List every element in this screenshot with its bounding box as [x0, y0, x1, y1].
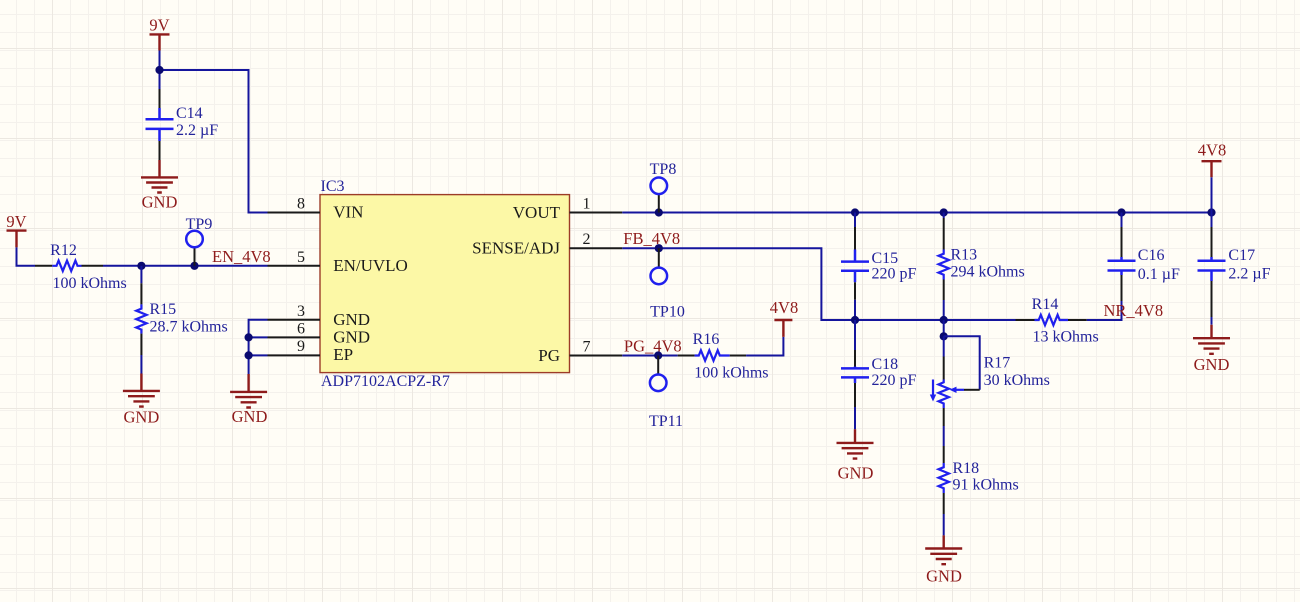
- wire VOUT bus: [622, 212, 1211, 214]
- node junction pin9: [245, 351, 253, 359]
- svg-text:C17: C17: [1228, 247, 1255, 264]
- svg-text:100 kOhms: 100 kOhms: [53, 275, 127, 292]
- node junction pin6: [245, 333, 253, 341]
- resistor R15: [136, 266, 228, 374]
- svg-text:GND: GND: [926, 566, 962, 585]
- node junction C17 top: [1207, 208, 1215, 216]
- wire 4V8 to bus: [1211, 177, 1213, 212]
- svg-text:GND: GND: [333, 310, 370, 329]
- power 9V left: [6, 212, 26, 247]
- ground GND (pins 3 6 9): [230, 374, 267, 426]
- svg-text:GND: GND: [333, 327, 370, 346]
- wire R17 to R18: [943, 408, 945, 446]
- ground GND (C18): [837, 429, 874, 482]
- svg-text:R15: R15: [150, 301, 177, 318]
- svg-text:PG: PG: [538, 346, 560, 365]
- test point TP11: [649, 356, 683, 430]
- svg-text:C15: C15: [872, 250, 899, 267]
- wire 9V to R12: [17, 247, 36, 265]
- svg-text:TP8: TP8: [650, 161, 677, 178]
- node junction TP11: [654, 351, 662, 359]
- svg-text:PG_4V8: PG_4V8: [624, 336, 682, 355]
- svg-text:R18: R18: [953, 460, 980, 477]
- svg-text:3: 3: [297, 303, 305, 320]
- node junction C16 top: [1117, 208, 1125, 216]
- resistor R12: [35, 242, 127, 292]
- test point TP9: [186, 216, 213, 266]
- pin 2 SENSE/ADJ: [472, 231, 622, 258]
- pin 7 PG: [538, 339, 622, 366]
- resistor R13: [939, 213, 1025, 321]
- wire R12 to EN node: [103, 265, 268, 267]
- svg-text:294 kOhms: 294 kOhms: [951, 264, 1025, 281]
- node junction TP8: [655, 208, 663, 216]
- svg-text:220 pF: 220 pF: [872, 372, 917, 389]
- svg-text:EP: EP: [333, 345, 353, 364]
- ground GND (R18): [925, 535, 962, 585]
- node junction R17 wiper: [940, 332, 948, 340]
- svg-text:28.7 kOhms: 28.7 kOhms: [150, 318, 228, 335]
- svg-text:R13: R13: [951, 247, 978, 264]
- pin 3 GND: [268, 303, 371, 329]
- svg-text:4V8: 4V8: [770, 298, 798, 317]
- node junction 9V/C14: [155, 66, 163, 74]
- node junction TP10: [655, 244, 663, 252]
- power 4V8 top right: [1198, 140, 1226, 177]
- power 9V top: [149, 16, 169, 51]
- pin 5 EN/UVLO: [268, 249, 408, 275]
- wire R16 to 4V8: [746, 337, 783, 356]
- node junction R13 top: [940, 208, 948, 216]
- wire 9V to C14/VIN node: [160, 51, 268, 213]
- pin 8 VIN: [268, 196, 364, 222]
- svg-text:GND: GND: [142, 192, 178, 211]
- pin 1 VOUT: [513, 196, 623, 223]
- capacitor C16: [1108, 213, 1181, 302]
- resistor R16: [678, 331, 769, 382]
- svg-text:5: 5: [297, 249, 305, 266]
- node junction R12/R15: [137, 262, 145, 270]
- svg-text:R12: R12: [50, 242, 77, 259]
- svg-text:2.2 µF: 2.2 µF: [176, 122, 218, 139]
- potentiometer R17: [930, 336, 1050, 408]
- node junction C15 bottom: [851, 316, 859, 324]
- svg-text:VOUT: VOUT: [513, 203, 561, 222]
- node junction R13 bottom: [940, 316, 948, 324]
- ground GND (R15): [123, 374, 160, 427]
- svg-text:30 kOhms: 30 kOhms: [984, 372, 1050, 389]
- svg-text:100 kOhms: 100 kOhms: [694, 365, 768, 382]
- svg-text:13 kOhms: 13 kOhms: [1033, 329, 1099, 346]
- wire PG net: [622, 355, 677, 357]
- pin 9 EP: [268, 338, 354, 364]
- svg-text:8: 8: [297, 196, 305, 213]
- svg-text:4V8: 4V8: [1198, 140, 1226, 159]
- svg-text:9V: 9V: [6, 212, 26, 231]
- svg-text:VIN: VIN: [333, 203, 363, 222]
- svg-text:EN_4V8: EN_4V8: [212, 247, 271, 266]
- pin 6 GND: [268, 320, 371, 346]
- svg-text:91 kOhms: 91 kOhms: [953, 477, 1019, 494]
- svg-text:6: 6: [297, 320, 305, 337]
- svg-text:SENSE/ADJ: SENSE/ADJ: [472, 239, 560, 258]
- svg-text:IC3: IC3: [321, 178, 345, 195]
- capacitor C18: [841, 320, 917, 429]
- svg-text:ADP7102ACPZ-R7: ADP7102ACPZ-R7: [321, 373, 450, 390]
- power 4V8 (R16): [770, 298, 798, 337]
- node junction TP9/EN: [190, 262, 198, 270]
- ground GND (C17): [1193, 325, 1230, 374]
- svg-text:EN/UVLO: EN/UVLO: [333, 256, 408, 275]
- resistor R18: [939, 446, 1019, 535]
- svg-text:0.1 µF: 0.1 µF: [1138, 266, 1180, 283]
- svg-text:9V: 9V: [149, 16, 169, 35]
- svg-text:R14: R14: [1032, 296, 1059, 313]
- svg-text:GND: GND: [124, 408, 160, 427]
- svg-text:NR_4V8: NR_4V8: [1104, 301, 1164, 320]
- svg-text:C18: C18: [872, 356, 899, 373]
- test point TP8: [650, 161, 677, 213]
- svg-text:9: 9: [297, 338, 305, 355]
- svg-text:R16: R16: [693, 331, 720, 348]
- svg-text:GND: GND: [1194, 355, 1230, 374]
- svg-text:1: 1: [583, 196, 591, 213]
- svg-text:2.2 µF: 2.2 µF: [1228, 266, 1270, 283]
- wire R17 wiper loop: [944, 336, 980, 393]
- wire SENSE/ADJ FB net: [622, 248, 1121, 320]
- ground GND (C14): [141, 160, 178, 211]
- svg-text:GND: GND: [232, 407, 268, 426]
- capacitor C14: [146, 89, 219, 160]
- wire R13 to R17: [943, 320, 945, 336]
- capacitor C15: [841, 213, 917, 321]
- node junction C15 top: [851, 208, 859, 216]
- svg-text:TP9: TP9: [186, 216, 213, 233]
- svg-text:GND: GND: [838, 464, 874, 483]
- svg-text:TP10: TP10: [650, 304, 685, 321]
- svg-text:C14: C14: [176, 105, 203, 122]
- svg-text:2: 2: [583, 231, 591, 248]
- svg-text:FB_4V8: FB_4V8: [623, 229, 680, 248]
- svg-text:R17: R17: [984, 354, 1011, 371]
- svg-text:7: 7: [583, 339, 591, 356]
- svg-text:TP11: TP11: [649, 413, 683, 430]
- svg-text:C16: C16: [1138, 247, 1165, 264]
- capacitor C17: [1198, 213, 1271, 325]
- op-amp IC3 body: [320, 178, 570, 390]
- wire pin3/6/9 to GND: [249, 320, 268, 374]
- svg-text:220 pF: 220 pF: [872, 266, 917, 283]
- test point TP10: [650, 248, 685, 320]
- resistor R14: [1016, 296, 1099, 346]
